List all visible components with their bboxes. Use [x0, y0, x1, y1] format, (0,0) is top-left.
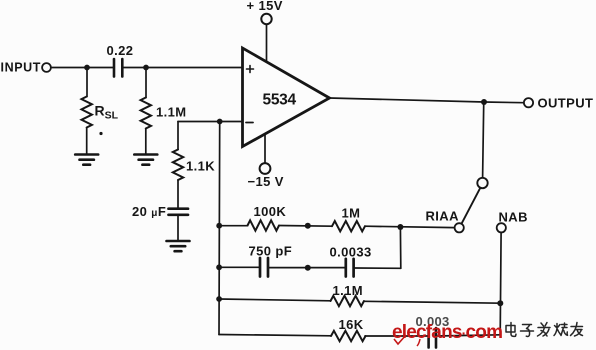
- wire feedback vertical bus: [218, 122, 221, 335]
- svg-text:750 pF: 750 pF: [249, 244, 293, 259]
- resistor R4 100K: [248, 220, 280, 230]
- ground under RSL: [75, 155, 98, 165]
- wire R2 to ground: [145, 129, 147, 155]
- wire junction to R2 1.1M: [145, 68, 147, 98]
- svg-text:0.22: 0.22: [107, 43, 134, 58]
- ground under R2: [134, 155, 157, 165]
- wire 1.1K corner to op-amp - input: [178, 121, 243, 123]
- wire op-amp to -15V: [264, 134, 266, 163]
- terminal OUTPUT: [524, 98, 533, 107]
- wire junction to RSL: [86, 68, 88, 97]
- node NAB/1.1M junction: [497, 300, 503, 306]
- switch arm to RIAA contact: [462, 188, 481, 224]
- RIAA contact terminal: [455, 223, 464, 232]
- node bus/RIAA-line junction: [216, 223, 222, 229]
- resistor R5 1M: [332, 221, 365, 231]
- watermark Chinese characters: [506, 323, 583, 337]
- resistor R2 1.1M: [141, 98, 151, 129]
- node output junction: [481, 99, 487, 105]
- capacitor C5 0.003: [429, 328, 436, 348]
- switch pole terminal: [477, 178, 487, 188]
- capacitor C4 0.0033: [346, 259, 354, 277]
- node 750pF/0.0033 junction: [305, 265, 311, 271]
- wire 16K feedback line: [219, 335, 500, 337]
- svg-text:NAB: NAB: [499, 210, 528, 225]
- watermark elecfans.com: [392, 322, 502, 346]
- NAB contact terminal: [497, 223, 506, 232]
- wire 750pF branch line: [219, 267, 401, 268]
- capacitor C2 20uF: [169, 209, 189, 215]
- node C1/R2 junction: [143, 65, 149, 71]
- terminal +15V: [261, 14, 271, 24]
- svg-text:1.1K: 1.1K: [186, 159, 215, 174]
- svg-text:RSL: RSL: [95, 103, 119, 122]
- node input/RSL junction: [84, 65, 90, 71]
- wire 1.1M feedback line: [219, 299, 500, 303]
- wire 0.0033 right end up to 1M junction: [399, 227, 401, 268]
- node bus/750pF-line junction: [216, 264, 222, 270]
- resistor R3 1.1K: [173, 150, 183, 181]
- svg-text:INPUT: INPUT: [1, 61, 42, 75]
- svg-text:16K: 16K: [339, 317, 364, 332]
- svg-text:1.1M: 1.1M: [333, 283, 364, 298]
- wire output junction to switch pole: [483, 105, 484, 178]
- svg-text:20 μF: 20 μF: [132, 204, 166, 219]
- wire RIAA equalization line: [219, 226, 454, 228]
- svg-text:100K: 100K: [254, 204, 287, 219]
- svg-text:0.0033: 0.0033: [330, 245, 372, 260]
- wire R3 to C2: [177, 180, 179, 208]
- capacitor C1 0.22: [114, 59, 122, 77]
- wire corner down to R3: [177, 122, 179, 150]
- resistor R7 16K: [331, 331, 366, 341]
- wire C1 to op-amp + input: [124, 67, 243, 69]
- stray dot mark: [99, 132, 102, 135]
- pin - marking: [246, 122, 253, 124]
- svg-text:5534: 5534: [263, 92, 297, 109]
- resistor RSL: [82, 97, 92, 128]
- pin + marking: [247, 66, 254, 73]
- wire op-amp output to OUTPUT terminal: [330, 98, 524, 103]
- wire input to C1 left plate: [51, 67, 113, 69]
- svg-text:OUTPUT: OUTPUT: [538, 96, 594, 111]
- ground under C2: [167, 241, 190, 251]
- svg-text:elecfans·com: elecfans·com: [392, 322, 502, 343]
- wire NAB vertical line: [499, 233, 502, 335]
- capacitor C3 750pF: [260, 258, 268, 277]
- wire C2 to ground: [177, 216, 179, 241]
- node bus/1.1M-line junction: [216, 296, 222, 302]
- wire RSL to ground: [86, 128, 88, 155]
- wire +15V to op-amp: [266, 24, 268, 62]
- op-amp U1 5534: [243, 48, 330, 147]
- node 100K/1M junction: [305, 223, 311, 229]
- svg-text:RIAA: RIAA: [426, 209, 460, 224]
- node feedback junction: [217, 119, 223, 125]
- svg-text:−15 V: −15 V: [248, 174, 284, 189]
- resistor R6 1.1M: [331, 296, 365, 306]
- svg-text:1.1M: 1.1M: [156, 105, 187, 120]
- node 1M/RIAA-cap junction: [397, 224, 403, 230]
- svg-text:+ 15V: + 15V: [247, 0, 283, 13]
- terminal -15V: [260, 163, 271, 174]
- input terminal: [42, 63, 51, 72]
- svg-text:1M: 1M: [342, 206, 361, 221]
